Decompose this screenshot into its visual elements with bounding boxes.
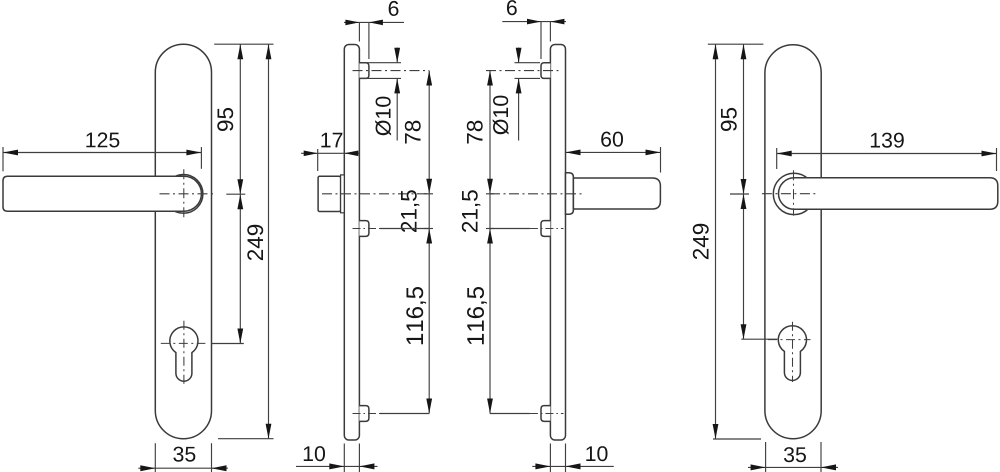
dim text 6 (S2) [507,0,517,15]
dimension 35 right arrow (outside) [212,465,227,471]
dimension 125 right arrow [186,150,201,156]
dimension 17 right arrow (outside, S1) [344,151,358,157]
extension line S1 bottom left [343,444,345,472]
dimension 35 line [138,467,228,469]
centerline (horizontal) through P2 handle axis [762,193,815,195]
extension line S1 neck face [317,149,319,171]
dimension 10 right arrow (outside, S2) [566,463,581,469]
dim text 125 [86,132,119,147]
dimension 95 bottom arrow [237,179,243,194]
dimension Ø10 lower arrow line (S2) [518,78,520,140]
extension line P1 bottom right [211,443,213,472]
extension tick at P2 handle axis [730,193,749,195]
centerline (horizontal) through P2 cylinder hole [768,339,811,341]
dimension 17 left arrow (outside, S1) [304,151,318,157]
dimension 6 left arrow (outside) [345,20,359,26]
dim text 17 (S1) [321,133,342,148]
extension line S1 middle screw [380,228,429,230]
dimension Ø10 lower arrow (S2) [516,78,522,93]
dimension 35 left arrow (outside) [140,465,155,471]
dim text 78 (S1) [405,121,421,144]
dimension 60 right arrow (S2) [646,150,661,156]
handle flange of S1 [341,175,345,213]
extension line Ø10 bottom (S1) [361,77,401,79]
screw head middle of S1 [359,221,369,237]
lever handle grip of P2 (139 mm, pointing right) [779,178,998,210]
dimension 139 line [777,153,997,155]
dim text 10 (S2) [586,446,607,461]
dimension 60 line (S2) [566,151,661,153]
dimension 6 line (S1 top) [344,21,404,23]
screw head top of S1 (Ø10) [359,63,369,79]
plate S2 side profile (10 mm thick) [550,45,565,441]
dimension 6 line (S2 top) [502,21,566,23]
extension line S2 middle screw [490,228,530,230]
lever handle grip of S2 (60 mm projection, side view) [573,178,660,209]
dim text Ø10 (S1) [375,97,391,136]
extension line S2 bottom left [549,444,551,472]
screw head middle of S2 [541,221,550,237]
dimension 249 top arrow (P2) [713,44,719,59]
dimension 249 line [268,44,270,439]
extension line P2 bottom left [765,442,767,472]
dimension 10 left arrow (outside, S2) [535,463,550,469]
dimension 95 line (P2) [743,44,745,194]
extension tick S1 middle screw [424,228,433,230]
extension line Ø10 top (S2) [515,62,541,64]
dimension 116,5 line (S1) [428,229,430,414]
extension line at P2 plate top [708,43,764,45]
centerline (horizontal) through P1 handle axis [160,193,216,195]
extension line at P1 cylinder axis [212,343,244,345]
extension line S2 bottom screw [490,413,530,415]
euro profile cylinder hole of P2 [778,326,806,381]
screw head top of S2 (Ø10) [541,63,550,79]
dimension 116,5 line (S2) [489,229,491,414]
handle flange of S2 [566,173,574,214]
dimension (92) handle-to-cylinder line [239,194,241,343]
dimension (92) bottom arrow [237,329,243,344]
centerline S2 handle axis [490,193,585,195]
centerline S2 middle screw [530,228,564,230]
dimension 10 line (S2) [532,465,614,467]
extension line S1 bottom screw [380,413,429,415]
dimension 95 top arrow (P2) [741,44,747,59]
dim text 249 (right view) [693,224,709,259]
dim text 21,5 (S1) [401,190,420,232]
centerline S2 top screw [486,70,562,72]
extension line at P1 plate top [214,43,273,45]
extension line P1 bottom left [154,443,156,472]
dimension 21,5 line (S2) [489,194,491,229]
centerline S1 top screw [353,70,430,72]
dimension 10 right arrow (outside, S1) [359,463,374,469]
dimension 116,5 bottom arrow (S2) [487,399,493,414]
centerline (vertical) through P1 cylinder hole [183,321,185,387]
dimension 35 line (P2) [748,466,838,468]
dim text 78 (S2) [467,121,483,144]
dimension 139 left arrow [777,151,792,157]
screw head bottom of S2 [541,406,550,422]
rose (handle boss) of P1 [164,175,203,214]
dimension 249 line (P2) [715,44,717,439]
dimension (92) bottom arrow (P2) [741,324,747,339]
dimension 95 line [239,44,241,194]
dimension 6 left arrow (outside, S2) [527,19,541,25]
dim text 35 (right view) [784,447,806,462]
extension line S2 plate back face [549,22,551,42]
extension line right of rose [200,147,202,169]
plate S1 side profile (10 mm thick) [344,45,359,441]
screw head bottom of S1 [359,406,369,422]
dim text 139 [871,133,904,148]
dimension 249 top arrow [266,44,272,59]
dimension Ø10 upper arrow line (S1) [396,48,398,63]
centerline S1 bottom screw [353,413,381,415]
extension line S2 screw face [540,22,542,59]
dim text 116,5 (S2) [467,287,487,344]
dimension 139 right arrow [982,151,997,157]
centerline (vertical) through P1 handle axis [183,169,185,219]
centerline S2 bottom screw [530,413,564,415]
extension line S2 bottom right [565,444,567,472]
dimension Ø10 lower arrow (S1) [394,78,400,93]
dim text 95 (left view) [217,108,233,131]
extension line Ø10 top (S1) [361,62,401,64]
dimension 78 top arrow (S1) [426,71,432,86]
dim text 249 (left view) [247,225,263,260]
extension line P2 bottom right [820,442,822,472]
dimension 95 bottom arrow (P2) [741,179,747,194]
dim text 116,5 (S1) [406,287,426,344]
dim text 21,5 (S2) [462,190,481,232]
extension line right end of P2 handle [996,148,998,171]
extension line S2 grip end [660,147,662,173]
extension line at P2 cylinder axis [741,338,777,340]
rose (handle boss) of P2 [773,173,814,214]
dimension 35 left arrow (outside, P2) [751,464,766,470]
dimension 249 bottom arrow [266,424,272,439]
dimension 125 left arrow [3,150,18,156]
extension line at P1 plate bottom [218,438,274,440]
dim text 6 (S1) [389,1,399,16]
dimension (92) top arrow (P2) [741,194,747,209]
dimension 116,5 top arrow (S2) [487,229,493,244]
extension line left end of handle [2,147,4,171]
dimension 17 line (S1) [301,152,359,154]
dimension 116,5 bottom arrow (S1) [426,399,432,414]
dimension 78 top arrow (S2) [487,71,493,86]
dimension 35 right arrow (outside, P2) [821,464,836,470]
extension tick S2 handle axis [486,193,494,195]
dimension 78 line (S2) [489,71,491,194]
handle neck stub of S1 (17 mm projection) [318,176,341,211]
dimension 60 left arrow (S2) [566,150,581,156]
dimension Ø10 lower arrow line (S1) [396,78,398,140]
dimension 116,5 top arrow (S1) [426,229,432,244]
dim text Ø10 (S2) [493,96,509,135]
dim text 35 (left view) [173,447,195,462]
centerline (vertical) through P2 handle axis [793,170,795,215]
extension tick at P1 handle axis [226,193,245,195]
dimension 249 bottom arrow (P2) [713,424,719,439]
dimension 95 top arrow [237,44,243,59]
plate P1 (left front view, 35x249 backplate) [155,44,211,439]
dimension 21,5 line (S1) [428,194,430,229]
dimension Ø10 upper arrow line (S2) [518,48,520,63]
centerline S1 middle screw [353,228,381,230]
extension line at P2 plate bottom [713,438,761,440]
euro profile cylinder hole of P1 [170,327,198,381]
dimension Ø10 upper arrow (S1) [394,48,400,63]
dimension 78 bottom arrow (S1) [426,179,432,194]
extension tick S1 handle axis [424,193,433,195]
dimension Ø10 upper arrow (S2) [516,48,522,63]
dim text 60 (S2) [601,132,623,147]
dimension 10 line (S1) [296,465,378,467]
extension line left of P2 rose [776,148,778,169]
extension line S1 screw face [368,22,370,59]
dimension (92) top arrow [237,194,243,209]
extension line S1 bottom right [358,444,360,472]
dimension (92) handle-to-cylinder line (P2) [743,194,745,339]
centerline S1 handle axis [322,193,429,195]
plate P2 (right front view, 35x249 backplate) [765,45,821,439]
dimension 6 right arrow (outside) [369,20,383,26]
extension tick S2 middle screw [486,228,494,230]
dimension 6 right arrow (outside, S2) [550,19,564,25]
lever handle grip of P1 (125 mm, pointing left) [3,176,201,211]
centerline (horizontal) through P1 cylinder hole [161,342,206,344]
dimension 10 left arrow (outside, S1) [329,463,344,469]
dimension 78 bottom arrow (S2) [487,179,493,194]
dim text 10 (S1) [304,446,325,461]
extension line Ø10 bottom (S2) [515,77,541,79]
dimension 125 line [3,152,201,154]
extension line S1 plate back face [358,22,360,41]
dimension 78 line (S1) [428,71,430,194]
centerline (vertical) through P2 cylinder hole [792,322,794,382]
dim text 95 (right view) [721,108,737,131]
